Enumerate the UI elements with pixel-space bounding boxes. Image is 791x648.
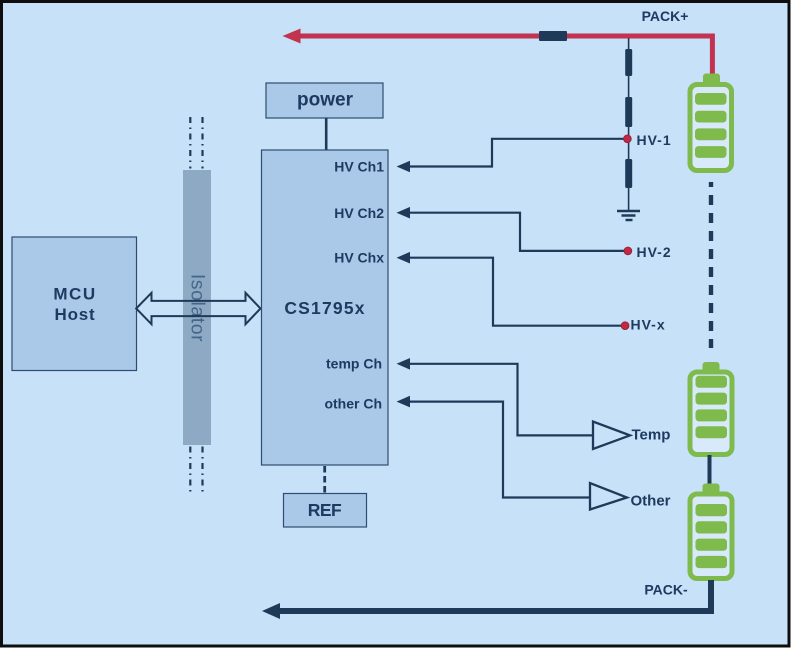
svg-text:power: power [297, 90, 354, 111]
node HV-x [621, 317, 665, 333]
node HV-2 [624, 244, 672, 260]
sense wire from PACK+ rail down to ground [628, 38, 630, 211]
svg-text:Isolator: Isolator [186, 274, 208, 342]
resistor segment R1 [625, 49, 632, 76]
wire HV-1 to pin HV Ch1 [397, 139, 624, 173]
fuse on PACK+ wire [539, 31, 567, 41]
REF block [284, 494, 367, 528]
wire HV-x to pin HV Chx [397, 252, 622, 326]
svg-text:temp Ch: temp Ch [326, 356, 382, 372]
svg-text:HV-x: HV-x [631, 317, 666, 333]
svg-text:REF: REF [308, 500, 342, 520]
svg-text:HV-2: HV-2 [637, 244, 672, 260]
svg-text:HV Ch2: HV Ch2 [334, 205, 384, 221]
isolator U2 [183, 170, 211, 445]
dashed wire battery stack continuation [709, 182, 713, 348]
bidirectional arrow MCU to CS1795x [136, 293, 260, 324]
power block [266, 83, 383, 118]
battery B3 [690, 484, 732, 579]
wire HV-2 to pin HV Ch2 [397, 207, 625, 251]
PACK- wire with arrowhead [262, 580, 711, 619]
isolator dash-dot lines bottom [190, 447, 202, 495]
ground [617, 211, 640, 220]
svg-text:Other: Other [631, 493, 671, 510]
svg-text:PACK+: PACK+ [642, 8, 689, 24]
buffer Temp [593, 422, 670, 450]
dashed wire CS1795x to REF [323, 466, 326, 494]
PACK+ red wire with arrowhead [283, 29, 713, 75]
CS1795x block U1 [262, 150, 389, 465]
svg-text:MCU: MCU [53, 285, 96, 304]
svg-text:Temp: Temp [632, 427, 671, 444]
svg-text:HV-1: HV-1 [637, 132, 672, 148]
wire Other buffer to pin other Ch [397, 396, 590, 498]
svg-text:other Ch: other Ch [324, 395, 382, 411]
node HV-1 [624, 132, 672, 148]
svg-text:HV Chx: HV Chx [334, 249, 384, 265]
wire power to CS1795x [325, 118, 328, 151]
battery B1 [690, 74, 732, 171]
svg-text:CS1795x: CS1795x [284, 298, 365, 318]
wire battery B2 to battery B3 [708, 455, 712, 485]
svg-text:HV Ch1: HV Ch1 [334, 159, 384, 175]
wire Temp buffer to pin temp Ch [397, 358, 593, 435]
svg-text:PACK-: PACK- [644, 582, 688, 598]
svg-text:Host: Host [55, 305, 96, 324]
isolator dash-dot lines top [190, 117, 202, 169]
battery B2 [690, 362, 732, 455]
resistor segment R2 [625, 97, 632, 127]
MCU Host block [12, 237, 137, 371]
buffer Other [590, 483, 671, 510]
resistor segment R3 [625, 159, 632, 188]
